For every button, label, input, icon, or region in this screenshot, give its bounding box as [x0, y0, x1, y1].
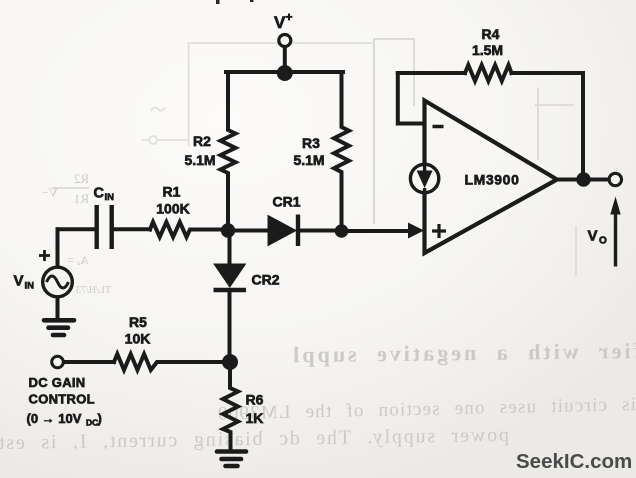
svg-text:100K: 100K — [156, 201, 189, 217]
svg-text:V: V — [14, 273, 24, 290]
terminal V+ — [279, 35, 291, 47]
wire CR2 bottom — [228, 291, 232, 362]
junction dot input node — [221, 223, 235, 237]
wire plus input — [342, 229, 411, 233]
bleed-through faint formula left — [74, 171, 89, 186]
arrow VO — [614, 213, 617, 267]
bleed-through faint line: right verticals — [535, 88, 576, 276]
resistor R5 — [114, 354, 226, 370]
resistor R1 — [150, 222, 228, 237]
bleed-through faint box top-left — [189, 43, 374, 146]
svg-text:R2: R2 — [193, 133, 211, 149]
bleed-through faint fragment circle — [149, 136, 157, 144]
wire VIN ground lead — [56, 297, 60, 318]
svg-text:5.1M: 5.1M — [184, 152, 215, 168]
wire top rail — [226, 70, 343, 74]
svg-text:1.5M: 1.5M — [472, 42, 503, 58]
bleed-through faint text C — [0, 424, 509, 454]
svg-text:TL/H/73: TL/H/73 — [76, 285, 111, 296]
resistor R4 — [465, 65, 512, 81]
diode CR2 — [214, 264, 246, 287]
svg-text:SeekIC.com: SeekIC.com — [516, 450, 632, 473]
source VIN sine — [47, 276, 69, 288]
svg-text:C: C — [94, 186, 105, 202]
svg-text:R1: R1 — [163, 184, 181, 200]
junction dot V+ — [277, 65, 293, 81]
svg-text:Aₐ =: Aₐ = — [67, 253, 89, 267]
source VIN circle — [43, 267, 73, 297]
svg-text:(0 → 10V: (0 → 10V — [27, 411, 82, 426]
svg-text:V−: V− — [41, 185, 58, 200]
bleed-through faint line: vertical — [373, 38, 375, 224]
wire feedback top right — [512, 73, 584, 178]
wire output — [557, 178, 608, 182]
wire input left — [58, 227, 95, 231]
op-amp current source arrow — [423, 165, 426, 171]
svg-text:fier with a negative suppl: fier with a negative suppl — [290, 338, 636, 367]
bleed-through faint squiggle — [151, 107, 165, 111]
bleed-through faint text B — [217, 394, 636, 425]
junction dot R3 node — [335, 224, 349, 238]
svg-text:IN: IN — [25, 281, 35, 292]
svg-text:R4: R4 — [482, 26, 500, 42]
source VIN plus sign — [39, 250, 50, 261]
svg-text:O: O — [599, 236, 607, 247]
svg-text:CONTROL: CONTROL — [29, 392, 95, 407]
svg-text:+: + — [286, 10, 293, 24]
resistor R2 — [221, 72, 236, 230]
wire CR1 right — [301, 229, 342, 233]
svg-text:R3: R3 — [302, 135, 320, 151]
resistor R3 — [334, 72, 349, 231]
wire feedback left — [398, 73, 423, 124]
svg-text:LM3900: LM3900 — [465, 172, 520, 188]
svg-text:V: V — [274, 13, 286, 32]
svg-text:V: V — [588, 228, 598, 245]
wire R5 left — [64, 360, 115, 364]
svg-text:R2: R2 — [74, 171, 89, 186]
ground below R6 — [217, 452, 246, 467]
op-amp plus sign — [432, 224, 446, 238]
wire input mid — [114, 227, 150, 231]
op-amp U1 triangle — [425, 101, 558, 254]
bleed-through faint text A — [290, 338, 636, 367]
op-amp input arrowhead — [408, 223, 424, 239]
resistor R6 — [223, 362, 238, 450]
svg-text:R6: R6 — [246, 392, 264, 408]
wire V+ lead — [283, 46, 287, 68]
terminal output — [609, 173, 621, 185]
op-amp current source circle — [410, 164, 438, 192]
svg-text:): ) — [98, 411, 102, 426]
svg-text:DC GAIN: DC GAIN — [29, 375, 86, 390]
svg-text:IN: IN — [105, 192, 115, 203]
svg-text:CR2: CR2 — [252, 272, 280, 288]
terminal DC gain — [52, 356, 64, 368]
junction dot output node — [576, 172, 590, 186]
op-amp minus sign — [433, 125, 444, 129]
svg-text:DC: DC — [86, 418, 98, 428]
svg-text:R1: R1 — [74, 191, 89, 206]
bleed-through faint line: corner — [374, 39, 414, 106]
capacitor CIN plates — [97, 205, 112, 249]
svg-text:R5: R5 — [129, 314, 147, 330]
svg-text:CR1: CR1 — [273, 194, 301, 210]
wire VIN vertical — [56, 229, 60, 267]
wire CR1 left — [228, 229, 268, 233]
junction dot R5/R6 node — [222, 354, 238, 370]
top edge artifacts — [216, 0, 220, 4]
svg-text:10K: 10K — [125, 331, 151, 347]
wire feedback top left — [398, 71, 465, 75]
svg-text:5.1M: 5.1M — [293, 152, 324, 168]
wire CR2 top — [228, 231, 232, 264]
diode CR1 — [268, 216, 296, 246]
svg-text:1K: 1K — [246, 410, 264, 426]
ground below VIN — [44, 320, 74, 335]
